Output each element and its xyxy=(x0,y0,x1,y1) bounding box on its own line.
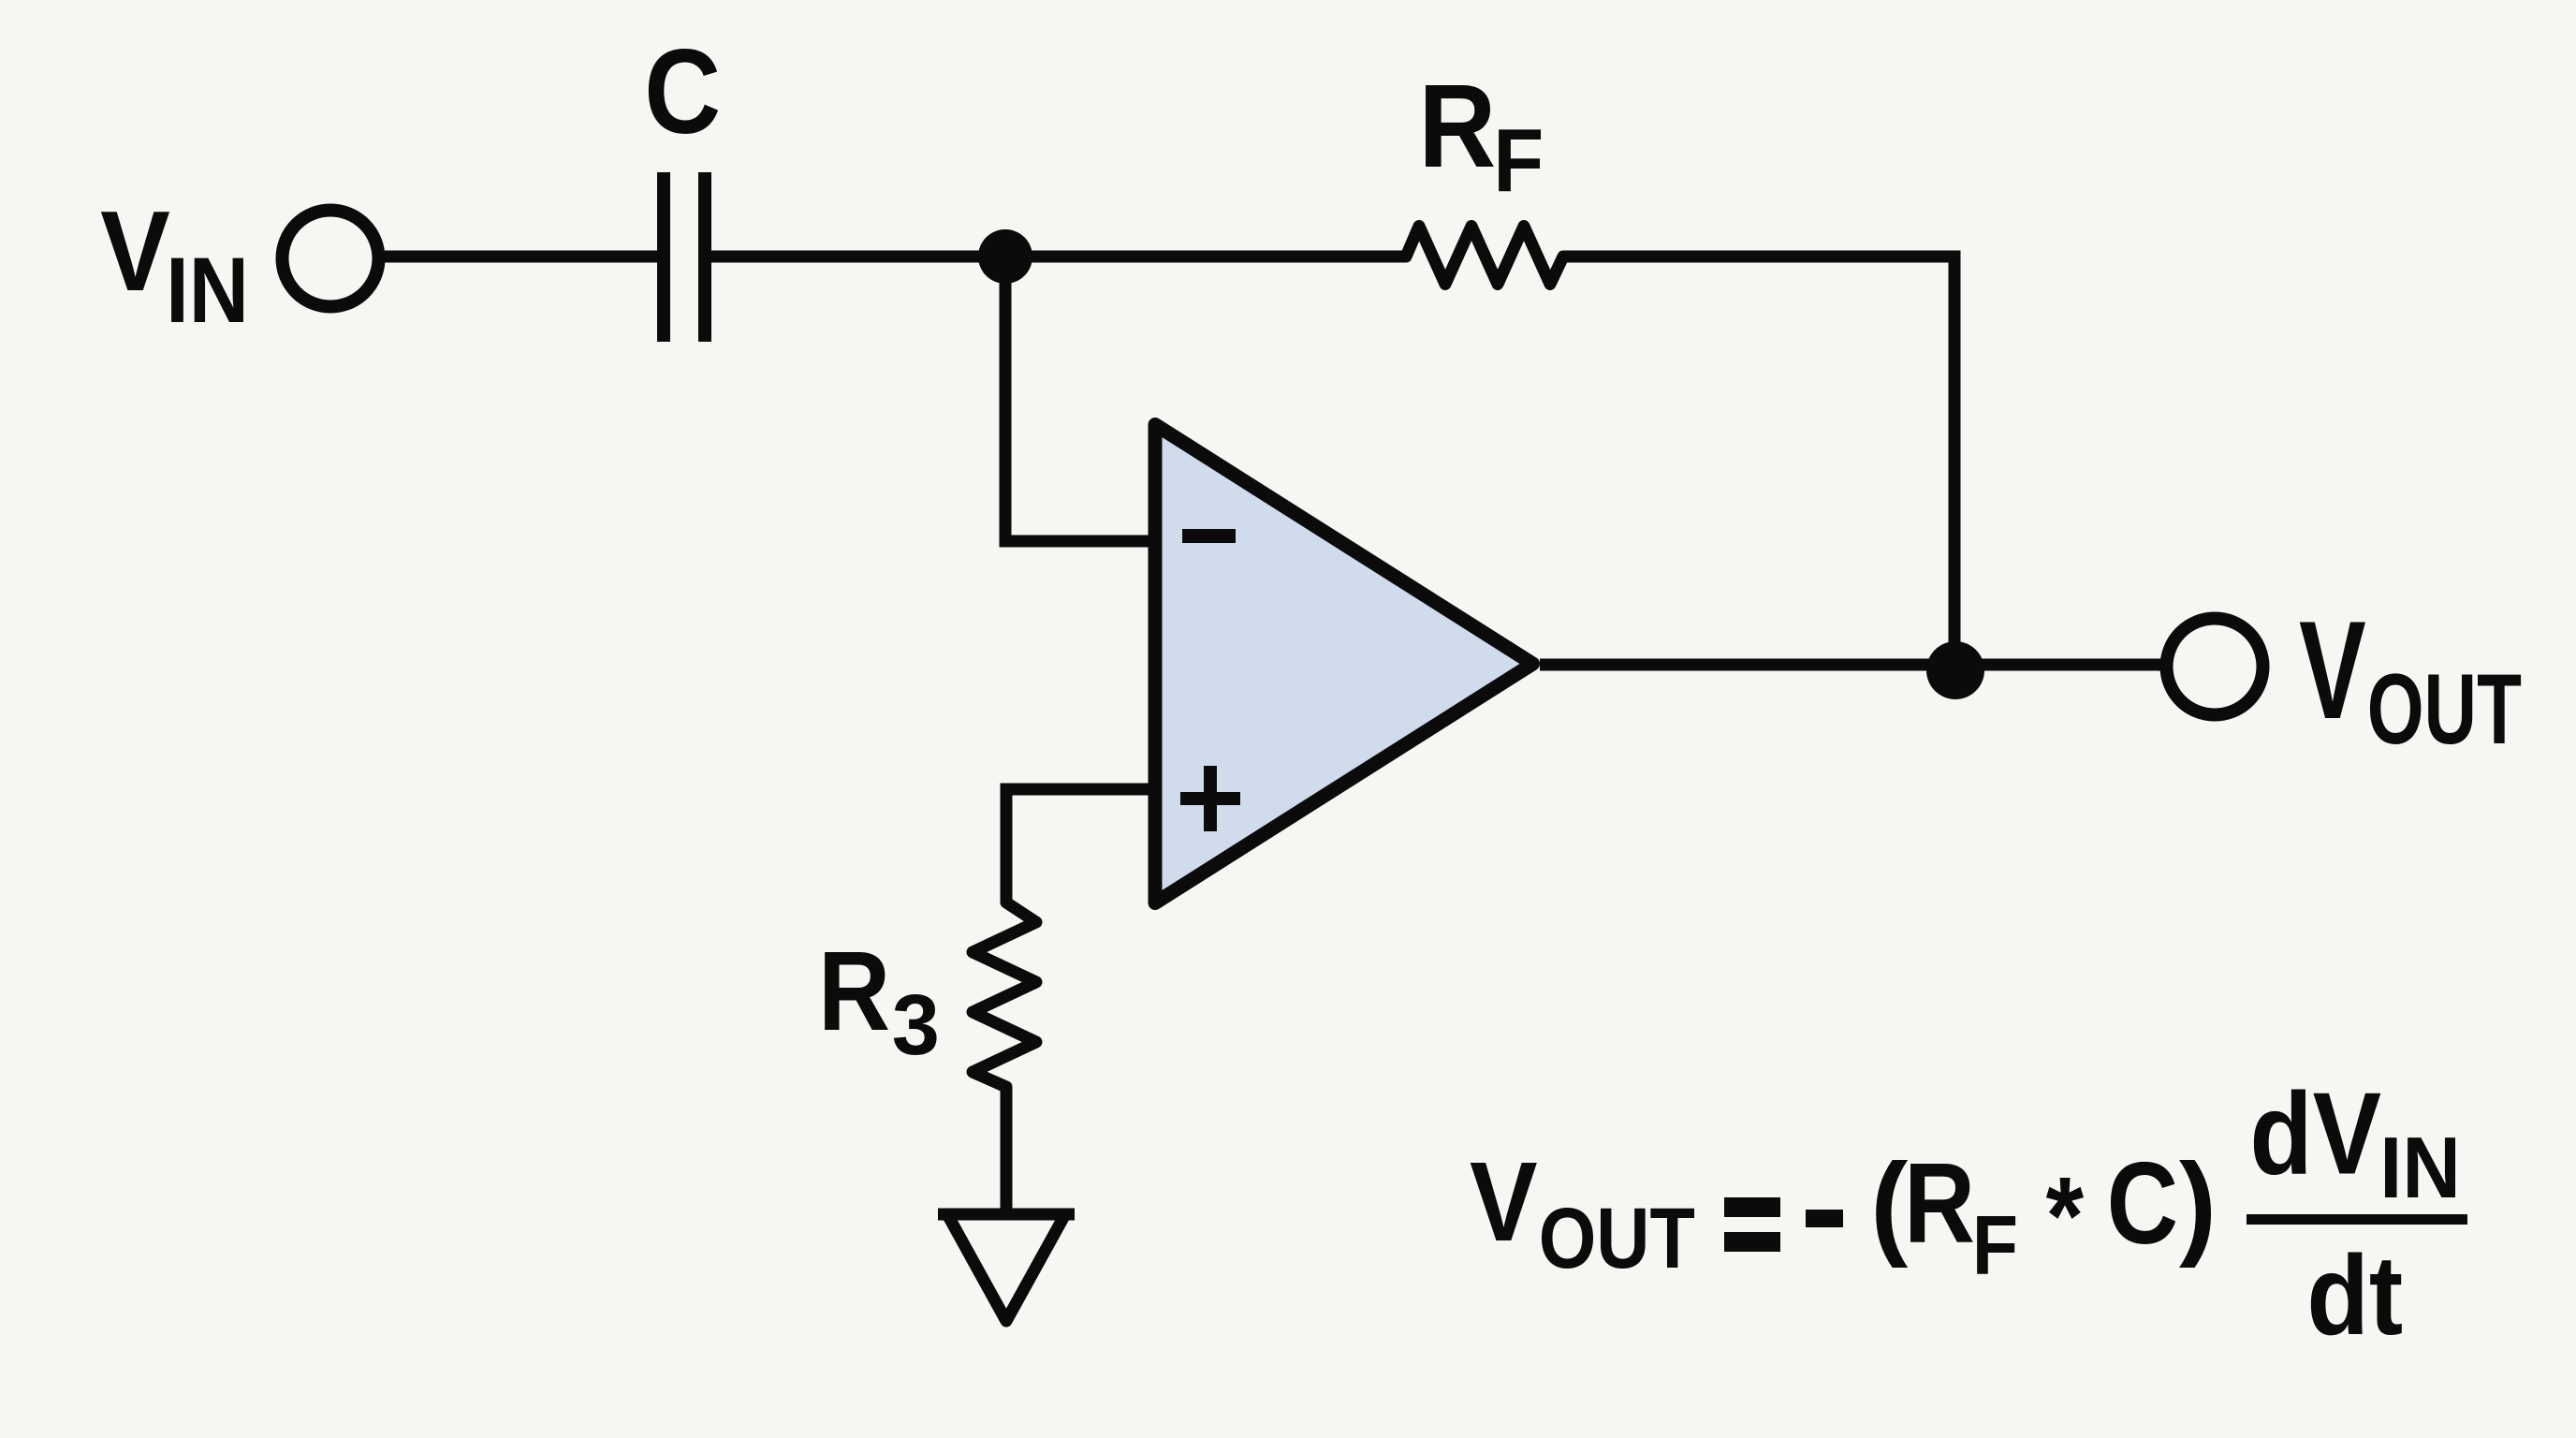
svg-text:*: * xyxy=(2046,1154,2085,1278)
svg-text:OUT: OUT xyxy=(1539,1191,1695,1286)
svg-text:V: V xyxy=(1470,1137,1538,1265)
svg-text:V: V xyxy=(100,187,170,315)
svg-text:3: 3 xyxy=(892,977,940,1073)
svg-text:IN: IN xyxy=(2379,1119,2461,1216)
svg-text:(: ( xyxy=(1870,1141,1908,1269)
svg-text:R: R xyxy=(1904,1139,1975,1267)
svg-text:IN: IN xyxy=(166,238,249,342)
svg-text:C: C xyxy=(644,25,721,159)
svg-text:R: R xyxy=(1418,60,1496,192)
svg-text:F: F xyxy=(1493,110,1544,211)
svg-text:): ) xyxy=(2179,1141,2217,1269)
svg-text:dt: dt xyxy=(2306,1231,2403,1358)
svg-text:F: F xyxy=(1972,1199,2018,1293)
svg-text:OUT: OUT xyxy=(2367,653,2522,765)
svg-text:R: R xyxy=(818,927,890,1054)
svg-text:C: C xyxy=(2107,1139,2179,1269)
svg-text:V: V xyxy=(2299,592,2366,748)
svg-text:dV: dV xyxy=(2249,1070,2381,1199)
